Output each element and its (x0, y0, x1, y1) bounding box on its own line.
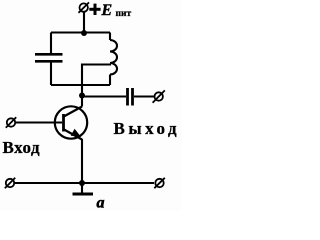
svg-text:Вход: Вход (3, 138, 41, 157)
svg-text:а: а (97, 195, 105, 212)
svg-text:Выход: Выход (114, 119, 181, 138)
svg-text:пит: пит (116, 9, 132, 19)
svg-text:E: E (101, 2, 113, 19)
